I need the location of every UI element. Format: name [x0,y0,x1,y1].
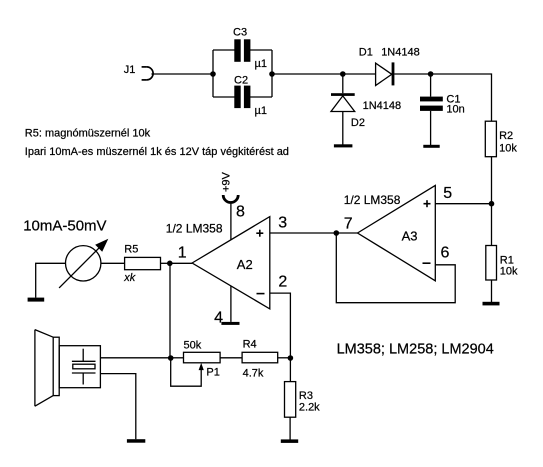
svg-text:µ1: µ1 [255,105,267,117]
capacitor C1 [420,94,465,116]
svg-text:R3: R3 [299,390,313,402]
wire cap box right vertical [271,50,273,97]
wire pin8 supply [230,204,232,240]
svg-text:P1: P1 [206,366,219,378]
svg-text:R2: R2 [499,130,513,142]
wire pin4 to ground [230,286,232,322]
ground (A2 pin4) [221,322,239,325]
svg-text:LM358; LM258; LM2904: LM358; LM258; LM2904 [337,342,494,358]
wire R3 to ground [289,417,291,439]
wire C1 node to top right corner and down to R2 [431,74,492,121]
svg-text:10n: 10n [446,103,464,115]
diode D2 [331,93,401,129]
wire meter left to ground [36,263,66,297]
svg-text:8: 8 [236,203,245,220]
wire R2 to pin5 node [491,157,493,204]
svg-text:1N4148: 1N4148 [363,100,402,112]
ground (speaker) [127,439,145,443]
svg-text:R1: R1 [500,254,514,266]
speaker LS1 [35,330,101,407]
wire node to R1 [491,204,493,246]
svg-text:50k: 50k [184,340,202,352]
svg-text:6: 6 [441,245,450,262]
wire box to D2 node [272,73,343,75]
node dot A3 out [334,230,340,236]
svg-text:1N4148: 1N4148 [381,47,420,59]
svg-text:Ipari 10mA-es müszernél 1k és: Ipari 10mA-es müszernél 1k és 12V táp vé… [25,146,289,158]
wire R1 to ground [491,280,493,302]
wire P1 to R4 [220,357,242,359]
wire speaker bottom terminal to ground [100,374,135,440]
node dot R4/R3/pin2 [288,355,294,361]
op-amp A2 [166,203,288,326]
svg-text:C2: C2 [234,74,248,86]
potentiometer P1 [184,340,221,379]
svg-text:10mA-50mV: 10mA-50mV [23,218,106,235]
node dot J1/caps left [210,71,216,77]
svg-text:C3: C3 [233,26,247,38]
svg-text:4.7k: 4.7k [243,368,264,380]
ground (R1) [483,302,500,306]
svg-text:7: 7 [344,215,353,232]
wire pin5 A3 to node [435,203,491,205]
ground (R3) [281,439,298,443]
wire R4 to pin2 node [278,357,291,359]
resistor R1 [486,246,518,281]
wire A2 out to A3 pin7 [270,232,358,234]
svg-text:xk: xk [123,272,136,284]
svg-text:2: 2 [278,273,287,290]
wire C1 to ground [430,111,432,145]
svg-text:R4: R4 [243,339,257,351]
node dot D2 [340,71,346,77]
svg-text:10k: 10k [499,142,517,154]
resistor R4 [242,339,278,380]
node dot A2 out/R5 [167,261,173,267]
capacitor C3 [233,26,267,70]
svg-text:10k: 10k [500,266,518,278]
svg-text:µ1: µ1 [255,58,267,70]
node dot caps right [269,71,275,77]
wire R5 to node [161,262,170,264]
wire node down to speaker node [169,263,171,358]
svg-text:2.2k: 2.2k [299,402,320,414]
resistor R5 [123,244,160,284]
wire D2 to ground [342,112,344,145]
svg-text:D2: D2 [351,117,365,129]
wire pin2 feedback down [270,293,291,358]
wire A2 out left to node [170,262,192,264]
wire J1 to cap box [151,73,213,75]
wire D2 node to D1 [343,73,376,75]
wire node to P1 [171,357,184,359]
svg-text:3: 3 [278,215,287,232]
wire bottom rail to C2 [213,96,235,98]
resistor R2 [485,121,517,157]
+9V supply symbol [221,171,239,202]
wire speaker top terminal [100,357,170,359]
wire meter to R5 [101,262,125,264]
wire D2 branch down [342,74,344,93]
node dot pin5/R2/R1 [489,201,495,207]
connector J1 [142,67,154,80]
wire P1 wiper return [171,358,202,386]
ground (meter) [28,298,45,302]
wire pin2 node to R3 [289,358,291,382]
svg-text:J1: J1 [124,64,136,76]
svg-text:1: 1 [178,245,187,262]
svg-text:5: 5 [443,185,452,202]
capacitor C2 [234,74,267,117]
svg-text:R5: R5 [124,244,138,256]
svg-text:A3: A3 [402,228,418,243]
svg-text:1/2 LM358: 1/2 LM358 [166,222,223,236]
wire A3 feedback loop [336,233,455,303]
wire top rail to C3 [213,49,235,51]
svg-text:D1: D1 [359,47,373,59]
svg-text:+9V: +9V [221,171,233,192]
svg-text:A2: A2 [237,257,253,272]
wire cap box left vertical [212,50,214,97]
node dot C1 [428,71,434,77]
wire C1 branch down [430,74,432,97]
diode D1 [359,47,420,86]
op-amp A3 [344,185,453,281]
ground (D2) [334,144,353,147]
node dot speaker/P1 [168,355,174,361]
wire D1 to C1 node [394,73,430,75]
svg-text:1/2 LM358: 1/2 LM358 [344,193,401,207]
resistor R3 [285,382,321,418]
meter M1 [23,218,108,288]
ground (C1) [423,145,439,148]
svg-text:R5: magnómüszernél 10k: R5: magnómüszernél 10k [25,127,151,139]
